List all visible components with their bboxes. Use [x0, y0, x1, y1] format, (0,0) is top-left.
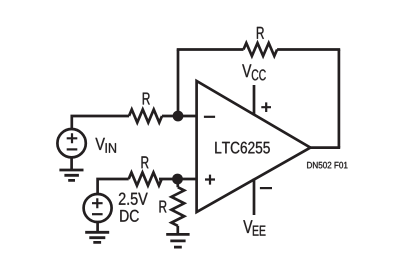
wire right vertical (output feedback) — [338, 50, 341, 148]
plus sign inside VIN source — [67, 133, 78, 143]
minus sign inside 2.5V source — [92, 213, 103, 215]
node A junction dot (inverting input) — [173, 111, 184, 122]
minus sign inside VIN source — [67, 148, 78, 150]
resistor R1 (feedback) zigzag — [244, 43, 278, 56]
ground bars (VIN) — [59, 170, 83, 180]
resistor R3 (bias) zigzag — [129, 173, 162, 186]
wire feedback node to top (vertical) — [177, 50, 180, 117]
voltage source 2.5V DC circle — [84, 194, 112, 222]
label DN text "DN502 F01" — [307, 162, 347, 169]
label VinIN text "IN" — [106, 143, 116, 153]
ground bars (R4) — [166, 234, 189, 247]
supply pin VEE — [253, 179, 256, 216]
supply pin VCC — [253, 85, 256, 116]
minus sign VEE polarity — [260, 187, 272, 189]
plus sign VCC polarity — [261, 102, 271, 112]
plus sign non-inverting input — [205, 175, 215, 185]
wire output — [310, 146, 340, 149]
ground stem (under 2.5V source) — [96, 222, 99, 232]
ground (under VIN) — [70, 157, 73, 170]
resistor R2 (input) zigzag — [129, 110, 162, 123]
label VeeEE text "EE" — [253, 226, 266, 236]
wire R2 to inverting input — [162, 115, 196, 118]
label LTC6255 text "LTC6255" — [215, 142, 269, 154]
label R4 text "R" — [160, 201, 167, 213]
wire 2.5V source up and right — [98, 179, 129, 194]
wire top left segment — [177, 48, 244, 51]
minus sign inverting input — [204, 116, 215, 118]
voltage source V_IN circle — [57, 129, 85, 157]
ground bars (2.5V source) — [85, 232, 109, 242]
label R2 text "R" — [143, 93, 150, 105]
wire node B to resistor R4 — [176, 179, 179, 187]
plus sign inside 2.5V source — [92, 198, 103, 208]
label R3 text "R" — [142, 156, 149, 168]
wire R3 to non-inverting input — [159, 178, 196, 181]
wire VIN source up and right — [72, 116, 129, 129]
label R1 text "R" — [257, 27, 264, 39]
node B junction dot (non-inverting input) — [172, 174, 183, 185]
label VccV text "V" — [242, 64, 251, 77]
ground stem (under R4) — [176, 226, 179, 235]
label VeeV text "V" — [243, 220, 252, 233]
resistor R4 (vertical) zigzag — [171, 187, 184, 226]
label DC text "DC" — [120, 210, 139, 222]
wire top right segment — [277, 48, 340, 51]
label V25 text "2.5V" — [119, 193, 148, 205]
label VinV text "V" — [95, 138, 105, 150]
label VccCC text "CC" — [252, 69, 266, 80]
op-amp U1 LTC6255 triangle — [197, 81, 311, 212]
